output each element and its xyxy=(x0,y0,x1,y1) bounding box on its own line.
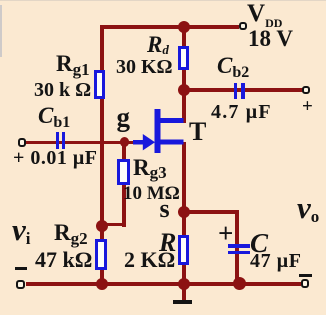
node: bottom rail at R / ground xyxy=(178,278,190,290)
label Rd xyxy=(147,32,169,58)
label Rg2 xyxy=(54,220,88,246)
label + at output xyxy=(302,96,313,118)
node: top rail / Rd junction xyxy=(178,21,190,33)
wire: Rg3 vertical from gate node down to divider link xyxy=(122,142,126,227)
resistor R body xyxy=(178,235,189,265)
wire: source column (source lead down to s node) xyxy=(182,142,186,213)
wire: ground stub xyxy=(182,284,186,300)
label 30 kΩ xyxy=(34,79,91,102)
node: bottom rail at C xyxy=(233,277,246,290)
resistor Rg3 body xyxy=(117,159,130,185)
label + at C xyxy=(218,218,233,249)
capacitor Cb2 plates xyxy=(234,83,238,100)
label + 0.01 μF xyxy=(13,147,97,170)
minus overline above output - terminal xyxy=(299,274,312,277)
resistor Rg1 body xyxy=(94,70,106,99)
terminal: output + xyxy=(302,86,310,94)
node g: gate junction xyxy=(120,137,129,146)
label T xyxy=(189,117,206,147)
wire: divider link horizontal (Rg1/Rg2 node to Rg3 bottom) xyxy=(101,223,125,227)
resistor Rg2 body xyxy=(95,239,107,270)
wire: bottom rail xyxy=(26,282,301,286)
capacitor C plates xyxy=(228,244,250,248)
label 10 MΩ xyxy=(123,183,180,205)
wire: C branch vertical down to bottom rail xyxy=(235,210,239,284)
label vi xyxy=(12,212,31,248)
node: divider junction (Rg1/Rg2/Rg3) xyxy=(96,220,108,232)
label VDD xyxy=(247,0,282,28)
label 18 V xyxy=(248,26,293,52)
ground xyxy=(173,300,192,305)
wire: top rail from left corner to VDD terminal xyxy=(100,25,239,29)
wire: drain column (top rail to drain lead) xyxy=(182,27,186,123)
transistor T (JFET) xyxy=(128,105,190,155)
label 4.7 μF xyxy=(211,101,272,124)
wire: left vertical (Rg1/Rg2 branch) xyxy=(100,25,104,286)
terminal: output - xyxy=(301,279,310,288)
label s xyxy=(160,194,170,224)
resistor Rd body xyxy=(178,46,189,70)
wire: source column s node to bottom rail (through R) xyxy=(182,212,186,284)
capacitor Cb1 plates xyxy=(56,132,60,149)
label 2 KΩ xyxy=(124,247,175,273)
label Cb2 xyxy=(217,53,249,79)
node: Rd bottom / Cb2 tap xyxy=(178,84,190,96)
node s: source junction xyxy=(178,206,190,218)
label 30 KΩ xyxy=(116,56,173,79)
label 47 μF xyxy=(250,250,302,273)
label 47 kΩ xyxy=(35,247,92,273)
wire: gate horizontal line from input terminal to JFET gate xyxy=(26,141,134,145)
terminal: input xyxy=(18,138,26,147)
terminal: input ground (bottom-left) xyxy=(16,280,26,289)
label Rg1 xyxy=(56,51,90,77)
wire: s node to C branch horizontal xyxy=(184,210,239,214)
label Rg3 xyxy=(133,155,167,181)
wire: Cb2 horizontal line from Rd junction to output terminal xyxy=(184,88,303,92)
minus sign for vi xyxy=(15,267,27,270)
label C xyxy=(250,228,268,259)
node: bottom rail at Rg2 xyxy=(96,278,108,290)
label Cb1 xyxy=(38,103,70,129)
label g xyxy=(117,102,131,133)
label vo xyxy=(297,190,319,226)
terminal: VDD xyxy=(239,22,247,30)
label R xyxy=(159,228,176,258)
